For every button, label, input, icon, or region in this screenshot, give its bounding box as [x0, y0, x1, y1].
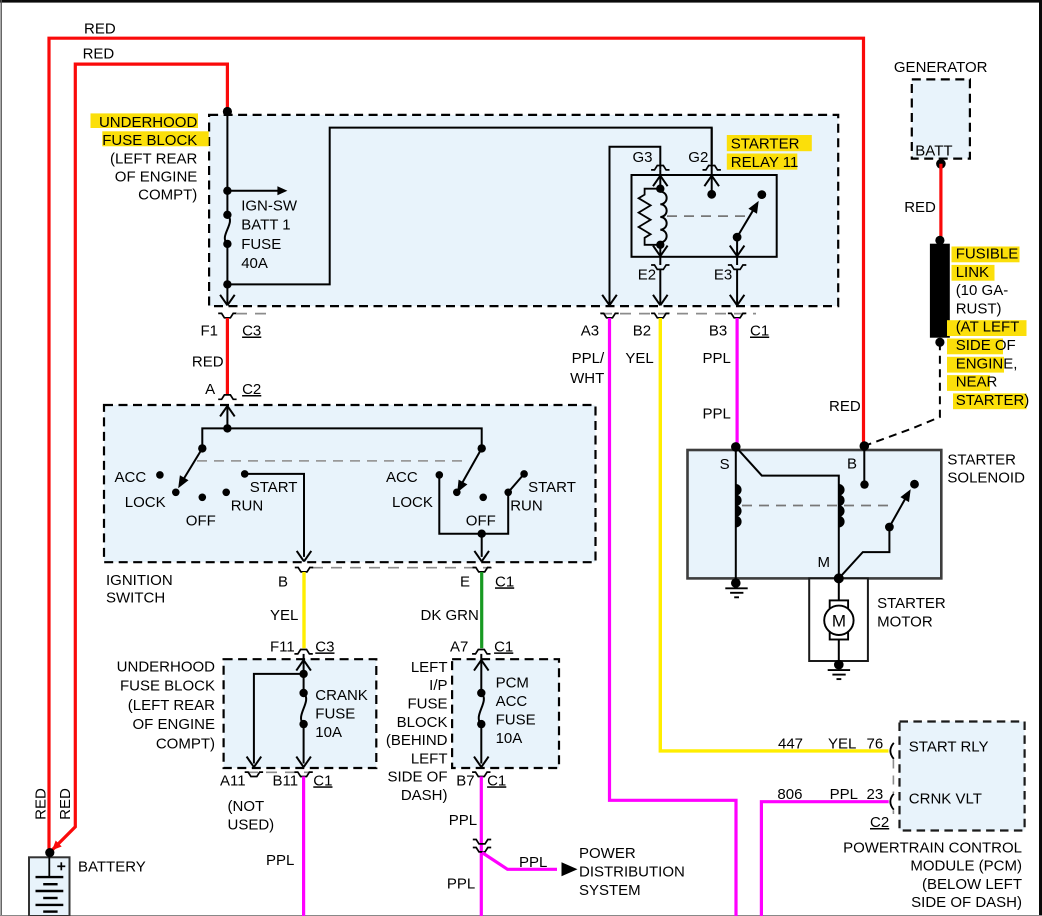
- fusible link: [930, 244, 950, 338]
- ignition switch box: [104, 405, 596, 562]
- connector A C2: [218, 395, 236, 399]
- svg-text:FUSE: FUSE: [496, 711, 536, 728]
- svg-text:WHT: WHT: [570, 370, 604, 387]
- wire dashed fusible link to solenoid B: [864, 342, 940, 446]
- generator box: [912, 79, 970, 158]
- relay resistor: [639, 189, 661, 245]
- svg-text:C3: C3: [242, 323, 261, 340]
- crank fuse entry arrow: [303, 654, 305, 660]
- svg-text:C1: C1: [495, 573, 514, 590]
- svg-text:PCM: PCM: [496, 674, 529, 691]
- svg-text:OFF: OFF: [466, 513, 496, 530]
- connector F11 C3: [294, 650, 312, 654]
- label UNDERHOOD FUSE BLOCK (highlighted): [91, 113, 199, 128]
- svg-text:DK GRN: DK GRN: [421, 607, 479, 624]
- svg-text:RED: RED: [829, 398, 861, 415]
- ignition switch 1 pivot: [198, 444, 206, 452]
- wire S to pull-in winding: [736, 447, 839, 579]
- svg-text:B3: B3: [709, 323, 727, 340]
- wire G3 to A3 loop: [610, 147, 661, 305]
- PCM box: [900, 722, 1025, 831]
- wire crank branch to A11: [254, 674, 304, 764]
- svg-text:B2: B2: [633, 323, 651, 340]
- svg-text:PPL: PPL: [266, 852, 294, 869]
- underhood fuse block 2 (crank fuse box): [224, 659, 377, 768]
- svg-text:POWER: POWER: [579, 845, 636, 862]
- wire YEL B to F11: [302, 572, 305, 648]
- svg-text:IGNITION: IGNITION: [106, 572, 173, 589]
- svg-text:POWERTRAIN CONTROL: POWERTRAIN CONTROL: [843, 840, 1022, 857]
- svg-text:FUSE: FUSE: [407, 696, 447, 713]
- solenoid pull-in winding: [839, 485, 844, 527]
- svg-text:OFF: OFF: [186, 513, 216, 530]
- ignition mechanical link (dashed): [197, 460, 469, 462]
- svg-text:OF ENGINE: OF ENGINE: [115, 169, 198, 186]
- svg-text:START RLY: START RLY: [909, 739, 989, 756]
- pcm acc fuse entry arrow: [480, 654, 482, 660]
- connector E3: [736, 257, 738, 265]
- wire fuse vertical: [226, 112, 228, 215]
- relay switch: [757, 190, 766, 199]
- svg-text:RELAY 11: RELAY 11: [731, 154, 799, 171]
- svg-text:RED: RED: [84, 21, 116, 38]
- svg-text:PPL/: PPL/: [572, 350, 605, 367]
- wire PPL/WHT A3 to PCM area: [610, 318, 737, 916]
- connector B11 C1: [294, 772, 312, 776]
- svg-text:B: B: [847, 456, 857, 473]
- svg-text:UNDERHOOD: UNDERHOOD: [99, 114, 198, 131]
- connector C2 dashed line: [892, 760, 894, 794]
- battery BATTERY: [48, 857, 50, 877]
- wire RED battery to solenoid B: [49, 38, 864, 852]
- svg-text:ACC: ACC: [115, 469, 147, 486]
- connector B2: [651, 313, 669, 317]
- svg-text:LINK: LINK: [956, 264, 989, 281]
- label STARTER RELAY 11 (highlighted): [727, 135, 812, 151]
- underhood fuse block (dashed box): [209, 115, 838, 306]
- wire fuse output to F1: [226, 284, 228, 305]
- svg-text:SWITCH: SWITCH: [106, 590, 165, 607]
- svg-text:MODULE (PCM): MODULE (PCM): [910, 858, 1022, 875]
- svg-text:YEL: YEL: [270, 607, 298, 624]
- svg-text:(BELOW LEFT: (BELOW LEFT: [922, 876, 1022, 893]
- svg-text:C1: C1: [494, 638, 513, 655]
- connector F1 C3: [218, 313, 236, 317]
- svg-text:BATT 1: BATT 1: [241, 217, 290, 234]
- svg-text:23: 23: [867, 786, 884, 803]
- svg-text:SOLENOID: SOLENOID: [947, 470, 1025, 487]
- svg-text:STARTER: STARTER: [947, 451, 1016, 468]
- svg-text:UNDERHOOD: UNDERHOOD: [117, 659, 216, 676]
- svg-text:SIDE OF DASH): SIDE OF DASH): [911, 894, 1022, 911]
- node fuse top junction: [223, 107, 232, 116]
- ignition switch 2 pivot: [478, 444, 486, 452]
- connector row C1 dashed line: [601, 313, 756, 315]
- svg-text:A3: A3: [581, 323, 599, 340]
- node solenoid S terminal: [731, 442, 741, 452]
- wire RED F1 to A: [226, 318, 229, 394]
- svg-text:F1: F1: [200, 323, 218, 340]
- svg-text:C1: C1: [487, 772, 506, 789]
- starter solenoid box: [688, 450, 942, 578]
- svg-text:FUSE BLOCK: FUSE BLOCK: [102, 132, 197, 149]
- fuse PCM ACC FUSE 10A: [477, 689, 485, 697]
- svg-text:YEL: YEL: [625, 350, 653, 367]
- arrow to power distribution system: [562, 862, 578, 876]
- svg-text:E3: E3: [714, 267, 732, 284]
- ground solenoid S: [731, 578, 741, 588]
- svg-text:PPL: PPL: [519, 854, 547, 871]
- connector B: [295, 568, 313, 572]
- svg-text:START: START: [528, 479, 576, 496]
- svg-text:C2: C2: [870, 814, 889, 831]
- node fusible link bottom: [935, 338, 944, 347]
- svg-text:RED: RED: [33, 788, 50, 820]
- connector A11: [245, 772, 263, 776]
- svg-text:CRANK: CRANK: [315, 687, 368, 704]
- solenoid B contact: [863, 446, 865, 485]
- svg-text:RED: RED: [192, 353, 224, 370]
- svg-text:RED: RED: [83, 46, 115, 63]
- svg-text:76: 76: [867, 735, 884, 752]
- svg-text:(AT LEFT: (AT LEFT: [956, 319, 1020, 336]
- svg-text:CRNK VLT: CRNK VLT: [909, 791, 982, 808]
- svg-text:RUST): RUST): [956, 300, 1002, 317]
- svg-text:USED): USED): [228, 817, 275, 834]
- relay mechanical link (dashed): [667, 215, 746, 217]
- svg-text:GENERATOR: GENERATOR: [894, 59, 988, 76]
- svg-text:STARTER): STARTER): [956, 392, 1030, 409]
- wire PPL B7 down: [480, 777, 483, 916]
- svg-text:C1: C1: [313, 772, 332, 789]
- wire DK GRN E to A7: [480, 572, 483, 648]
- ignition switch 1 contacts: [156, 471, 164, 479]
- wire M to motor: [838, 578, 840, 600]
- svg-text:COMPT): COMPT): [156, 735, 215, 752]
- svg-text:E2: E2: [638, 267, 656, 284]
- wire G2 entry: [711, 128, 713, 175]
- solenoid switch arm: [889, 497, 906, 528]
- svg-text:IGN-SW: IGN-SW: [241, 197, 298, 214]
- svg-text:F11: F11: [270, 638, 295, 655]
- svg-text:LOCK: LOCK: [392, 494, 433, 511]
- connector row C1 ignition dashed line: [312, 567, 492, 569]
- svg-text:S: S: [720, 456, 730, 473]
- node relay G2 contact: [711, 175, 713, 194]
- svg-text:(NOT: (NOT: [228, 798, 265, 815]
- svg-text:10A: 10A: [315, 724, 342, 741]
- wire PPL B11 down: [302, 777, 305, 916]
- svg-text:PPL: PPL: [447, 875, 475, 892]
- svg-text:SIDE OF: SIDE OF: [387, 769, 447, 786]
- wire START to B: [245, 474, 304, 557]
- svg-text:BATTERY: BATTERY: [78, 859, 146, 876]
- svg-text:B: B: [278, 573, 288, 590]
- ignition switch 2 arm: [460, 448, 482, 486]
- wire RED generator to fusible link: [939, 164, 942, 239]
- svg-text:(BEHIND: (BEHIND: [386, 732, 448, 749]
- starter motor enclosure: [809, 578, 868, 661]
- svg-text:PPL: PPL: [703, 406, 731, 423]
- connector B3: [728, 313, 746, 317]
- node fuse tap: [223, 187, 231, 195]
- svg-text:DISTRIBUTION: DISTRIBUTION: [579, 863, 685, 880]
- node E tap: [478, 530, 486, 538]
- svg-text:YEL: YEL: [828, 735, 856, 752]
- svg-text:ACC: ACC: [386, 469, 418, 486]
- svg-text:RUN: RUN: [231, 498, 264, 515]
- svg-text:C2: C2: [242, 381, 261, 398]
- svg-text:ENGINE,: ENGINE,: [956, 355, 1018, 372]
- connector G3: [651, 166, 669, 170]
- svg-text:(LEFT REAR: (LEFT REAR: [128, 697, 215, 714]
- svg-text:RUN: RUN: [510, 498, 543, 515]
- svg-text:B7: B7: [456, 772, 474, 789]
- connector G2: [703, 166, 721, 170]
- ground starter motor: [834, 660, 844, 670]
- wire E3 down: [736, 269, 738, 305]
- battery box: [29, 857, 70, 916]
- solenoid hold-in winding: [735, 447, 737, 583]
- PCM pin 23 bracket: [890, 794, 893, 810]
- svg-text:BLOCK: BLOCK: [397, 714, 448, 731]
- wire motor to ground: [838, 640, 840, 665]
- svg-text:A11: A11: [220, 772, 246, 789]
- node fuse bottom junction: [223, 280, 231, 288]
- ignition switch 1 arm: [182, 448, 203, 482]
- svg-text:START: START: [250, 479, 298, 496]
- solenoid switch linkage: [839, 527, 890, 578]
- svg-text:40A: 40A: [241, 255, 268, 272]
- svg-text:RED: RED: [57, 788, 74, 820]
- svg-text:DASH): DASH): [401, 787, 448, 804]
- svg-text:10A: 10A: [496, 730, 523, 747]
- wire ACC RUN START loop to E: [508, 474, 524, 492]
- svg-text:ACC: ACC: [496, 693, 528, 710]
- svg-text:(10 GA-: (10 GA-: [956, 282, 1009, 299]
- node M terminal: [834, 573, 844, 583]
- starter motor: [830, 600, 848, 639]
- wire YEL B2 to PCM 76: [660, 318, 888, 751]
- connector A7 C1: [472, 650, 490, 654]
- svg-text:COMPT): COMPT): [138, 187, 197, 204]
- wire PPL B3 to solenoid S: [735, 318, 738, 447]
- svg-text:PPL: PPL: [830, 786, 858, 803]
- svg-text:E: E: [460, 573, 470, 590]
- svg-text:I/P: I/P: [429, 677, 447, 694]
- svg-text:B11: B11: [273, 772, 299, 789]
- wire relay coil to E2: [659, 245, 661, 256]
- svg-text:A7: A7: [450, 638, 468, 655]
- svg-text:STARTER: STARTER: [877, 595, 946, 612]
- svg-text:FUSE: FUSE: [241, 236, 281, 253]
- svg-text:LEFT: LEFT: [411, 750, 448, 767]
- svg-text:RED: RED: [904, 199, 936, 216]
- svg-text:SIDE OF: SIDE OF: [956, 337, 1016, 354]
- relay coil: [659, 175, 661, 189]
- node crank fuse branch: [299, 670, 307, 678]
- svg-text:C3: C3: [315, 638, 334, 655]
- svg-text:BATT: BATT: [915, 142, 952, 159]
- left I/P fuse block box: [452, 659, 559, 768]
- wire fuse to G2 loop: [227, 128, 711, 285]
- starter relay 11 box: [632, 175, 777, 257]
- svg-text:G2: G2: [688, 149, 708, 166]
- connector row B11 dashed line: [247, 771, 310, 773]
- svg-text:LOCK: LOCK: [125, 494, 166, 511]
- node ignition bus junction: [223, 424, 231, 432]
- svg-text:C1: C1: [750, 323, 769, 340]
- svg-text:LEFT: LEFT: [411, 659, 448, 676]
- wire E2 down: [659, 269, 661, 305]
- node generator BATT terminal: [936, 159, 946, 169]
- connector E C1: [473, 568, 491, 572]
- ignition switch entry arrow: [220, 406, 227, 417]
- node battery positive: [45, 848, 54, 857]
- connector E2: [659, 257, 661, 265]
- connector B7 C1: [472, 772, 490, 776]
- svg-text:M: M: [832, 611, 846, 630]
- svg-text:G3: G3: [632, 149, 652, 166]
- svg-text:PPL: PPL: [703, 350, 731, 367]
- svg-text:FUSE: FUSE: [315, 706, 355, 723]
- ignition bus wire: [202, 428, 481, 448]
- wire RED battery to fuse block: [50, 64, 228, 852]
- svg-text:STARTER: STARTER: [731, 135, 800, 152]
- PCM pin 76 bracket: [890, 743, 893, 759]
- wire PPL branch to power distribution: [482, 853, 557, 870]
- svg-text:SYSTEM: SYSTEM: [579, 882, 641, 899]
- svg-text:A: A: [205, 381, 215, 398]
- svg-text:PPL: PPL: [449, 812, 477, 829]
- fuse CRANK FUSE 10A: [299, 689, 307, 697]
- svg-text:447: 447: [778, 735, 803, 752]
- svg-text:OF ENGINE: OF ENGINE: [132, 716, 215, 733]
- svg-text:MOTOR: MOTOR: [877, 613, 933, 630]
- solenoid moving contact: [910, 480, 919, 489]
- ignition switch 2 contacts: [436, 471, 444, 479]
- solenoid mechanical link (dashed): [742, 505, 893, 507]
- svg-text:FUSIBLE: FUSIBLE: [956, 246, 1019, 263]
- wire 806 PPL to PCM 23: [761, 802, 888, 916]
- node solenoid B terminal: [860, 441, 870, 451]
- connector A3: [600, 313, 618, 317]
- svg-text:NEAR: NEAR: [956, 374, 998, 391]
- svg-text:806: 806: [777, 786, 802, 803]
- node fusible link top: [935, 236, 944, 245]
- label FUSIBLE LINK (highlighted): [952, 247, 1020, 263]
- svg-text:(LEFT REAR: (LEFT REAR: [110, 150, 197, 167]
- svg-text:FUSE BLOCK: FUSE BLOCK: [120, 678, 215, 695]
- fuse IGN-SW BATT 1 FUSE 40A: [223, 211, 231, 219]
- inline connector on B7 wire: [473, 840, 491, 844]
- svg-text:M: M: [818, 554, 831, 571]
- arrow fuse feed right: [227, 190, 281, 192]
